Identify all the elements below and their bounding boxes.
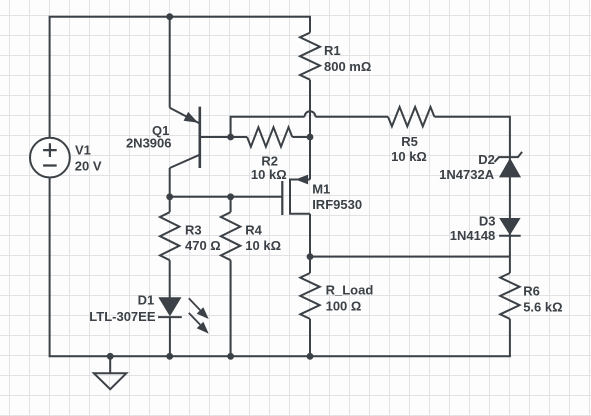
mosfet M1 IRF9530 (P-channel) bbox=[282, 175, 310, 215]
svg-text:D1: D1 bbox=[138, 292, 155, 307]
svg-text:M1: M1 bbox=[312, 182, 330, 197]
wire R1 bottom to R2/M1 node bbox=[309, 80, 311, 137]
junction node collector / R3 bbox=[166, 193, 173, 200]
svg-text:R1: R1 bbox=[324, 43, 341, 58]
junction node R4 / rail bbox=[227, 353, 234, 360]
svg-text:2N3906: 2N3906 bbox=[126, 136, 172, 151]
wire D3 cathode down to R6 node bbox=[509, 219, 511, 257]
wire Q1 base lead bbox=[200, 136, 231, 138]
zener diode D2 1N4732A bbox=[495, 152, 523, 177]
wire M1 drain leg down to drain node bbox=[309, 214, 311, 257]
resistor R3 470 Ohm bbox=[160, 197, 179, 298]
svg-text:5.6 kΩ: 5.6 kΩ bbox=[523, 300, 562, 315]
wire gate row: collector node to M1 gate bbox=[170, 196, 283, 198]
junction node R_Load / rail bbox=[307, 353, 314, 360]
LED emission arrow 1 bbox=[189, 298, 200, 310]
svg-text:D3: D3 bbox=[479, 214, 496, 229]
svg-text:R5: R5 bbox=[401, 134, 418, 149]
svg-text:R4: R4 bbox=[245, 223, 262, 238]
wire Q1 emitter to V+ rail bbox=[169, 17, 171, 108]
transistor Q1 2N3906 (PNP) bbox=[170, 107, 200, 168]
svg-text:V1: V1 bbox=[75, 143, 91, 158]
resistor R2 10 kOhm bbox=[231, 127, 310, 146]
voltage source V1 bbox=[30, 138, 70, 178]
svg-text:10 kΩ: 10 kΩ bbox=[251, 167, 287, 182]
junction node D1 / rail bbox=[166, 353, 173, 360]
svg-text:R_Load: R_Load bbox=[326, 282, 374, 297]
svg-text:20 V: 20 V bbox=[75, 159, 102, 174]
svg-text:D2: D2 bbox=[478, 152, 495, 167]
svg-text:R3: R3 bbox=[185, 223, 202, 238]
svg-text:10 kΩ: 10 kΩ bbox=[391, 149, 427, 164]
junction node ground symbol bbox=[107, 353, 114, 360]
junction node base / R2 / feedback wire bbox=[227, 134, 234, 141]
wire base node up and right toward R5 bbox=[231, 117, 305, 137]
wire hop over R1 column bbox=[305, 111, 316, 116]
resistor R_Load 100 Ohm bbox=[300, 257, 319, 357]
svg-text:IRF9530: IRF9530 bbox=[312, 197, 362, 212]
diode D3 1N4148 bbox=[499, 219, 521, 236]
svg-text:10 kΩ: 10 kΩ bbox=[245, 238, 281, 253]
wire R2 node down to M1 source leg bbox=[309, 137, 311, 180]
resistor R6 5.6 kOhm bbox=[500, 257, 519, 357]
svg-text:R6: R6 bbox=[523, 284, 540, 299]
LED emission arrow 2 bbox=[189, 313, 200, 325]
ground symbol bbox=[94, 356, 127, 389]
svg-text:800 mΩ: 800 mΩ bbox=[324, 59, 371, 74]
resistor R5 10 kOhm bbox=[388, 107, 434, 126]
LED D1 LTL-307EE bbox=[158, 298, 207, 357]
svg-text:100 Ω: 100 Ω bbox=[326, 299, 362, 314]
wire M1 drain node to R6/D3 node bbox=[310, 256, 510, 258]
wire D2 anode to D3 anode bbox=[509, 157, 511, 218]
junction node drain / R_Load bbox=[307, 253, 314, 260]
wire Q1 collector down to R3/R4/gate node bbox=[169, 168, 171, 197]
wire V+ rail: V1 top, top rail, R1 top lead bbox=[50, 17, 310, 138]
junction node R1 / R2 / M1 source bbox=[307, 134, 314, 141]
junction node gate row / R4 bbox=[227, 193, 234, 200]
resistor R4 10 kOhm bbox=[221, 197, 240, 356]
wire hop to R5 left lead bbox=[315, 116, 388, 118]
junction node V+ rail / Q1 emitter bbox=[166, 13, 173, 20]
resistor R1 800 mOhm bbox=[300, 33, 320, 80]
svg-text:470 Ω: 470 Ω bbox=[185, 238, 221, 253]
svg-text:LTL-307EE: LTL-307EE bbox=[89, 309, 156, 324]
wire R5 right to D2 cathode bbox=[434, 117, 510, 157]
svg-text:1N4148: 1N4148 bbox=[450, 228, 496, 243]
wire ground rail (bottom) bbox=[50, 178, 511, 357]
svg-text:1N4732A: 1N4732A bbox=[439, 167, 495, 182]
